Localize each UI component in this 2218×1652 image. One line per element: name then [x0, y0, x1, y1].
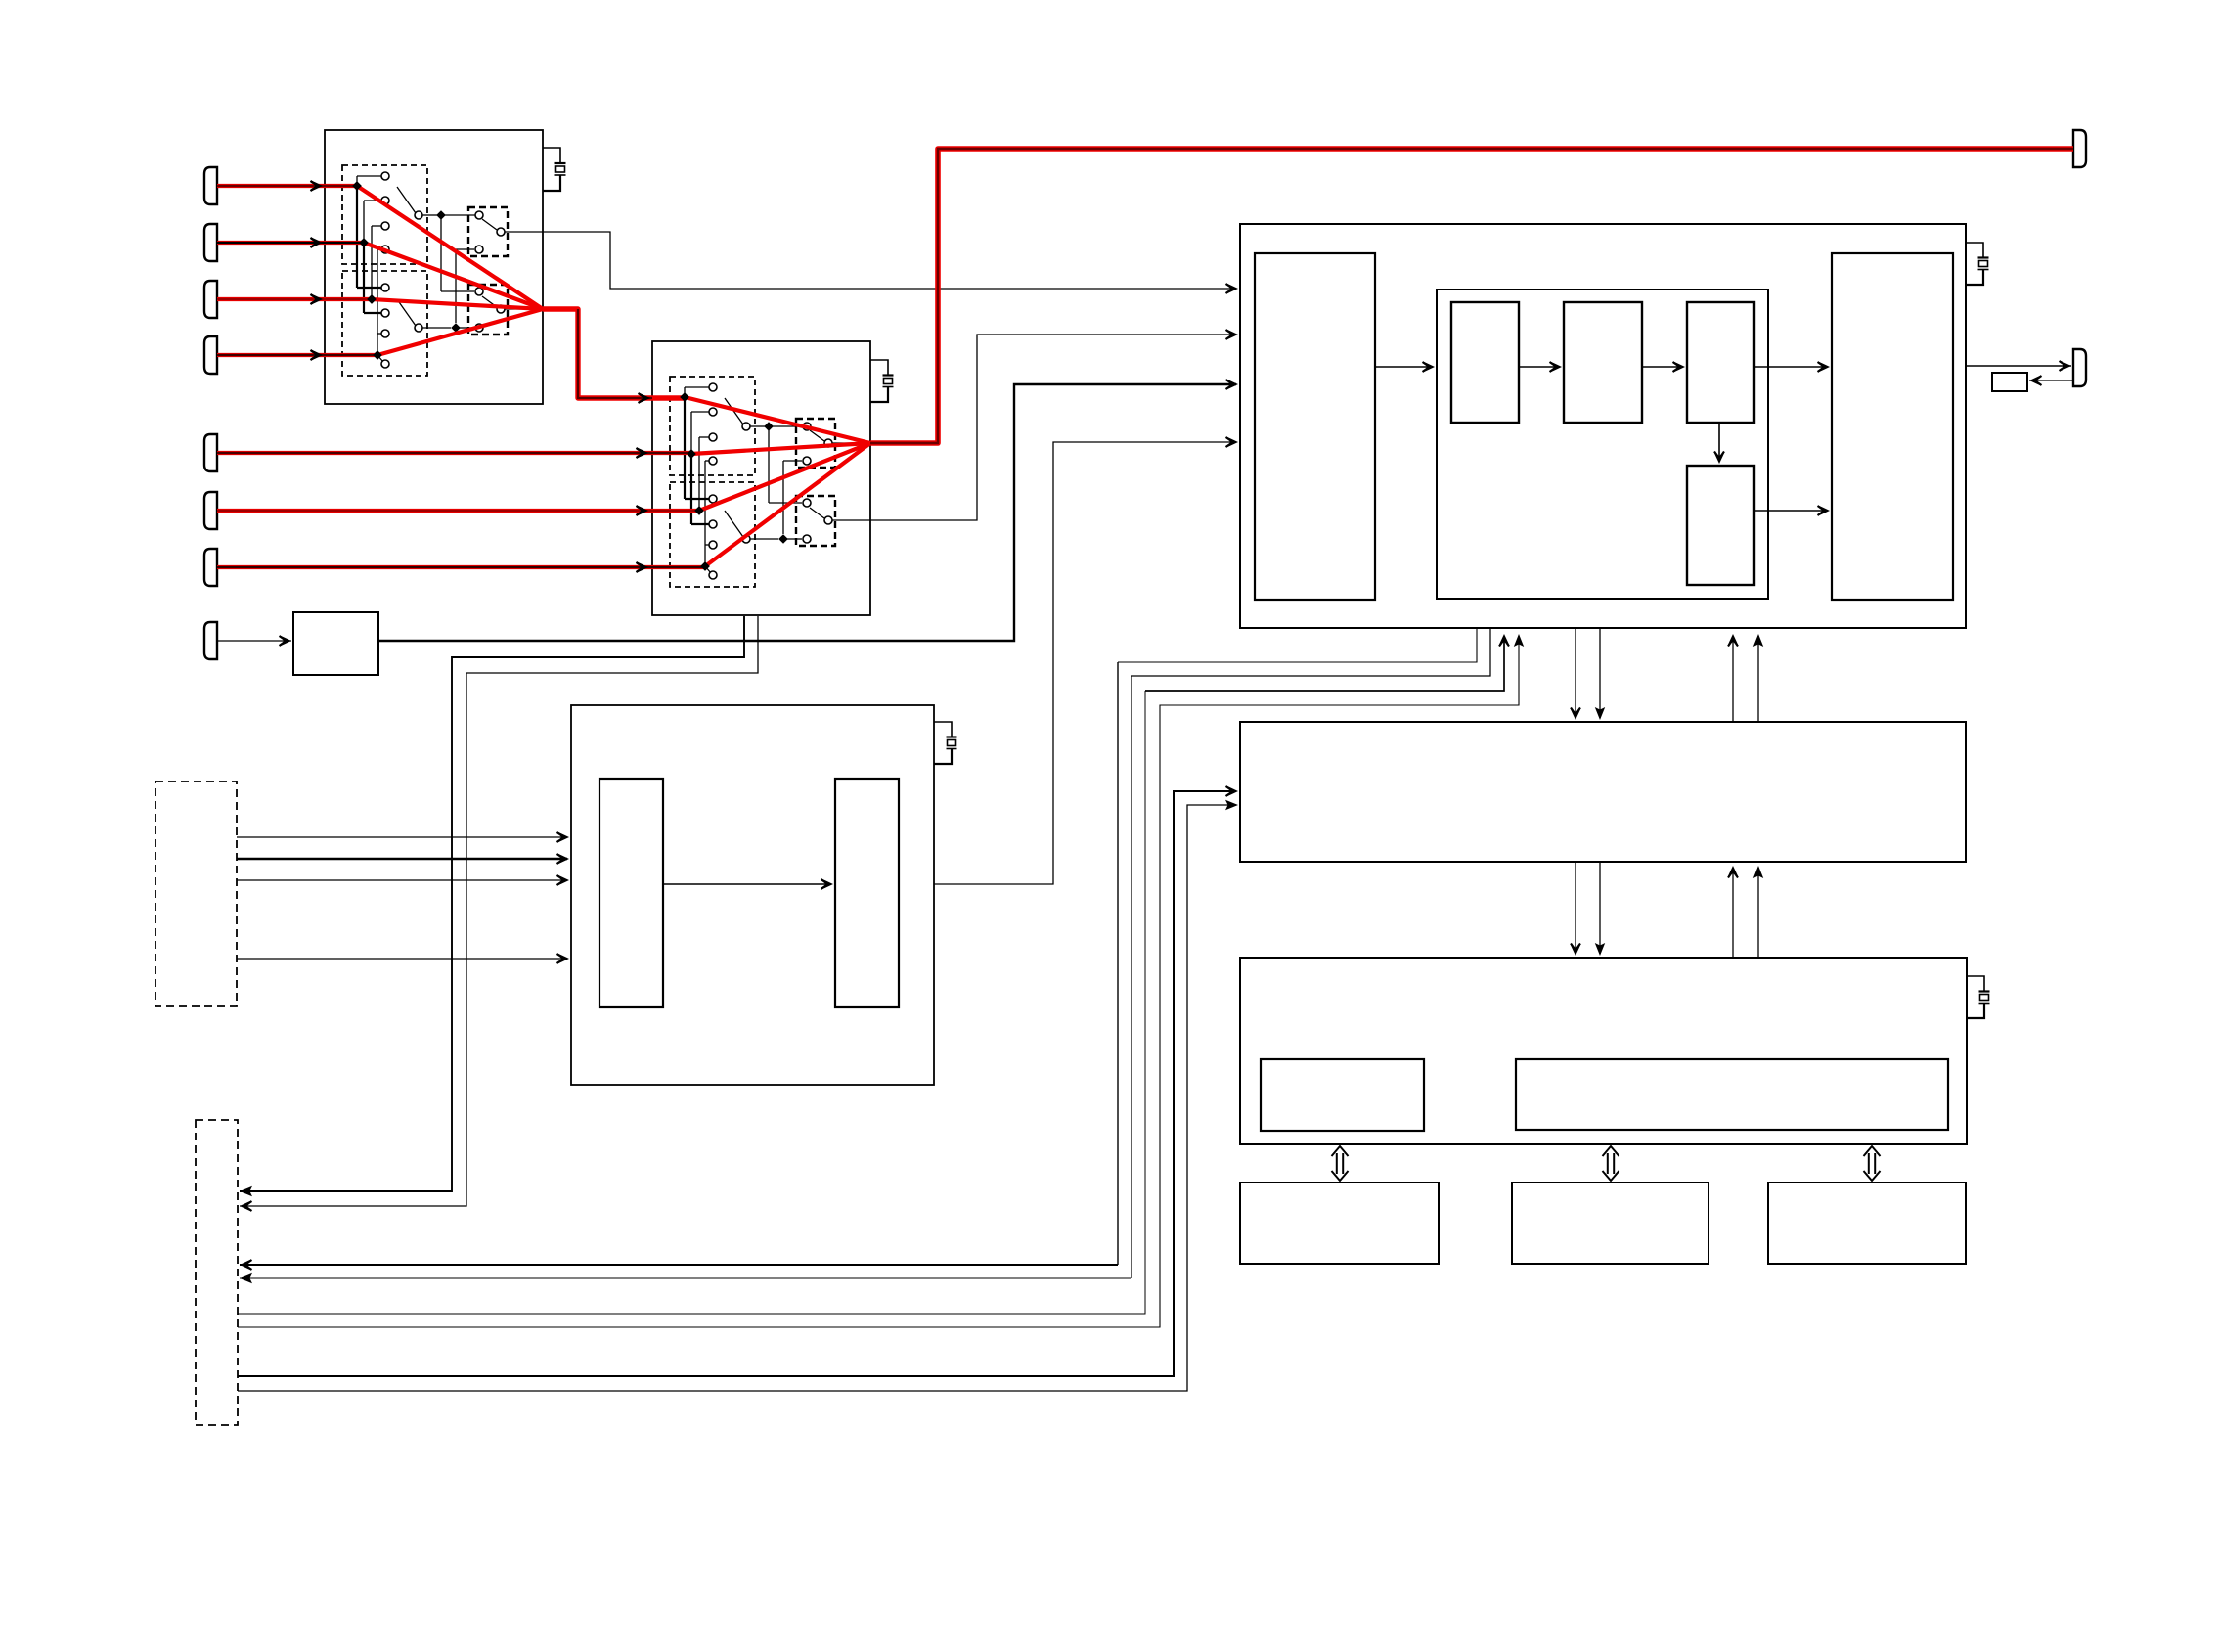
- core wire B6: [217, 510, 697, 512]
- arrowhead into SW2 in4: [637, 562, 649, 573]
- bus line gateway to ECU up 2: [1757, 636, 1759, 722]
- arrowhead into stage C: [1673, 362, 1686, 373]
- wire SW1 switch output to ECU input 1: [543, 232, 1236, 289]
- red wire B7 feed: [217, 565, 703, 569]
- red diagonal SW1 pole3: [372, 299, 543, 309]
- wire B7 to SW2 input 4: [217, 566, 705, 568]
- connector B1: [204, 167, 217, 204]
- connector C2 top right: [2073, 130, 2086, 167]
- arrowhead P5 into gateway: [1226, 786, 1239, 797]
- junction diamond over red: [352, 181, 362, 191]
- arrowhead P3 into ECU: [1499, 634, 1510, 647]
- junction diamond over red: [694, 506, 704, 515]
- junction diamond over red: [680, 392, 689, 402]
- wire SW2 output A to connector: [240, 616, 744, 1191]
- wire connector C1 return to terminator: [2029, 380, 2073, 381]
- wire B4 to SW1 input 4: [217, 354, 377, 356]
- connector B3: [204, 281, 217, 318]
- resonator X3 on amplifier: [934, 722, 957, 764]
- arrowhead into SW1 in4: [311, 350, 324, 361]
- core wire B2: [217, 242, 362, 244]
- red wire SW1 output to SW2: [543, 309, 686, 398]
- connector C1 right: [2073, 349, 2086, 386]
- arrowhead amp in4: [557, 954, 570, 964]
- red wire B1 feed: [217, 184, 355, 188]
- wire SW2 output B to connector: [240, 616, 758, 1206]
- bus line body ECU to gateway up 2: [1757, 868, 1759, 958]
- harness wire P1 upper ECU segment: [1118, 628, 1477, 662]
- junction diamond over red: [700, 561, 710, 571]
- wire noise filter to ECU input 3: [378, 384, 1236, 641]
- arrowhead into stage D: [1714, 452, 1725, 465]
- wire B1 to SW1 input 1: [217, 185, 357, 187]
- red diagonal SW2 pole1: [685, 397, 870, 443]
- amp output stage box: [835, 779, 899, 1007]
- core wire B3: [217, 298, 370, 300]
- CPU stage box B: [1564, 302, 1642, 423]
- red diagonal SW1 pole2: [364, 243, 543, 309]
- arrowhead into body ECU 1: [1571, 944, 1581, 957]
- bus line ECU to gateway down 2: [1599, 628, 1601, 718]
- wire sensor to amp input 4: [237, 958, 567, 960]
- amp input stage box: [599, 779, 663, 1007]
- load box 2: [1512, 1183, 1708, 1264]
- wire sensor to amp input 1: [237, 836, 567, 838]
- core wire SW2 to C2: [870, 149, 2073, 443]
- bus line gateway to ECU up 1: [1732, 636, 1734, 722]
- junction diamond over red: [359, 238, 369, 247]
- arrowhead SW2-A into connector: [240, 1186, 252, 1196]
- resonator X5 on body ECU: [1967, 976, 1990, 1018]
- switch box SW2 internal contacts: [670, 377, 870, 587]
- core wire B1: [217, 185, 355, 187]
- bus line body ECU to gateway up 1: [1732, 868, 1734, 958]
- arrowhead P4 into ECU: [1514, 634, 1524, 647]
- arrowhead into amp output stage: [821, 879, 834, 890]
- connector B7: [204, 549, 217, 586]
- core wire SW1 to SW2: [578, 309, 652, 398]
- arrowhead over red wire: [311, 350, 324, 361]
- red diagonal SW2 pole4: [705, 443, 870, 566]
- arrowhead into SW2 in2: [637, 448, 649, 459]
- wire B5 to SW2 input 2: [217, 452, 691, 454]
- arrowhead into body ECU 2: [1595, 943, 1605, 956]
- wire B2 to SW1 input 2: [217, 242, 364, 244]
- wire sensor to amp input 2: [237, 858, 567, 860]
- main ECU block outline: [1240, 224, 1966, 628]
- arrowhead into ECU in4: [1226, 437, 1239, 448]
- wire stage B to C: [1642, 366, 1683, 368]
- core wire B7: [217, 566, 703, 568]
- CPU stage box C: [1687, 302, 1754, 423]
- bus line gateway to body ECU down 1: [1575, 862, 1576, 954]
- arrowhead SW2-B into connector: [240, 1201, 252, 1212]
- CPU stage box A: [1451, 302, 1519, 423]
- red diagonal SW1 pole4: [377, 309, 543, 355]
- core wire B4: [217, 354, 376, 356]
- wire input interface to CPU: [1375, 366, 1433, 368]
- connector B2: [204, 224, 217, 261]
- arrowhead P1 into connector: [240, 1260, 252, 1271]
- red wire B6 feed: [217, 509, 697, 513]
- arrowhead into CPU container: [1423, 362, 1436, 373]
- arrowhead into ECU in2: [1226, 330, 1239, 340]
- wire amp output to ECU input 4: [934, 442, 1236, 884]
- arrowhead into gateway up 1: [1728, 866, 1739, 878]
- arrowhead into SW1 in1: [311, 181, 324, 192]
- arrowhead amp in2: [557, 854, 570, 865]
- wire ECU output to connector C1: [1966, 365, 2071, 367]
- wire stage D to output interface: [1754, 510, 1828, 512]
- switch box SW2 outline: [652, 341, 870, 615]
- red wire SW2 output to connector C2: [870, 149, 2073, 443]
- red wire B2 feed: [217, 241, 362, 245]
- arrowhead into gateway up 2: [1753, 866, 1763, 878]
- wire sensor to amp input 3: [237, 879, 567, 881]
- amplifier block outline: [571, 705, 934, 1085]
- junction diamond over red: [373, 350, 382, 360]
- bus line gateway to body ECU down 2: [1599, 862, 1601, 954]
- core wire B5: [217, 452, 689, 454]
- CPU stage box D: [1687, 466, 1754, 585]
- arrowhead over red wire: [639, 393, 651, 404]
- noise filter box: [293, 612, 378, 675]
- arrowhead over red wire: [637, 448, 649, 459]
- red wire B4 feed: [217, 353, 376, 357]
- arrowhead over red wire: [311, 294, 324, 305]
- arrowhead into SW2 in3: [637, 506, 649, 516]
- arrowhead over red wire: [637, 562, 649, 573]
- arrowhead P6 into gateway: [1225, 800, 1238, 810]
- wire stage C to output interface: [1754, 366, 1828, 368]
- load box 3: [1768, 1183, 1966, 1264]
- switch box SW1 internal contacts: [342, 165, 543, 376]
- red highlight group: [217, 149, 2073, 567]
- harness wire P1 vertical: [1117, 662, 1119, 1265]
- red diagonal SW2 pole2: [691, 443, 870, 454]
- harness wire P2 ECU segment: [1131, 628, 1490, 1278]
- body ECU block outline: [1240, 958, 1967, 1144]
- red wire B5 feed: [217, 451, 689, 455]
- arrowhead into output interface: [1818, 362, 1831, 373]
- wire amp internal stage link: [663, 883, 831, 885]
- arrowhead into ECU up 2: [1753, 634, 1763, 647]
- terminator resistor box: [1992, 373, 2027, 391]
- harness wire P3 upper segment to ECU: [1145, 636, 1504, 691]
- arrowhead amp in3: [557, 875, 570, 886]
- bidirectional link to load 2: [1603, 1146, 1619, 1181]
- wire stage A to B: [1519, 366, 1560, 368]
- ECU CPU container box: [1437, 290, 1768, 599]
- connector B4: [204, 336, 217, 374]
- wire SW2 switch output to ECU input 2: [870, 335, 1236, 520]
- arrowhead into stage B: [1550, 362, 1563, 373]
- dashed harness connector box: [196, 1120, 238, 1425]
- resonator X4 on ECU: [1966, 243, 1989, 285]
- harness wire P4 connector to ECU: [238, 636, 1519, 1327]
- arrowhead amp in1: [557, 832, 570, 843]
- harness wire P3 lower segment: [238, 691, 1145, 1314]
- wire stage C down to stage D: [1718, 423, 1720, 462]
- harness wire P6 connector to gateway: [238, 805, 1236, 1391]
- connector B5: [204, 434, 217, 471]
- junction diamond over red: [687, 449, 696, 459]
- arrowhead into terminator: [2029, 376, 2042, 386]
- connector B8: [204, 622, 217, 659]
- wire B6 to SW2 input 3: [217, 510, 699, 512]
- harness wire P2 into connector: [240, 1277, 1131, 1279]
- switch box SW1 outline: [325, 130, 543, 404]
- harness wire P5 connector to gateway: [238, 791, 1236, 1376]
- arrowhead into ECU in1: [1226, 284, 1239, 294]
- arrowhead over red wire: [311, 181, 324, 192]
- arrowhead into output interface 2: [1818, 506, 1831, 516]
- arrowhead into noise filter: [280, 636, 292, 647]
- red wire B3 feed: [217, 297, 370, 301]
- body ECU driver box: [1261, 1059, 1424, 1131]
- red diagonal SW1 pole1: [357, 186, 543, 309]
- resonator X1 on SW1: [543, 148, 566, 191]
- wire B3 to SW1 input 3: [217, 298, 372, 300]
- arrowhead into ECU in3: [1226, 380, 1239, 390]
- body ECU logic box: [1516, 1059, 1948, 1130]
- arrowhead into gateway 2: [1595, 707, 1605, 720]
- dashed sensor unit box: [155, 781, 237, 1006]
- wire B8 to noise filter: [217, 640, 291, 642]
- junction diamond over red: [367, 294, 377, 304]
- ECU output interface box: [1832, 253, 1953, 600]
- harness wire P1 into connector: [240, 1264, 1118, 1266]
- arrowhead into connector C1: [2060, 361, 2072, 372]
- arrowhead into ECU up 1: [1728, 634, 1739, 647]
- resonator X2 on SW2: [870, 360, 894, 402]
- connector B6: [204, 492, 217, 529]
- arrowhead over red wire: [311, 238, 324, 248]
- bus line ECU to gateway down 1: [1575, 628, 1576, 718]
- arrowhead into gateway 1: [1571, 708, 1581, 721]
- red diagonal SW2 pole3: [699, 443, 870, 511]
- gateway block outline: [1240, 722, 1966, 862]
- load box 1: [1240, 1183, 1439, 1264]
- arrowhead into SW1 in2: [311, 238, 324, 248]
- bidirectional link to load 3: [1864, 1146, 1881, 1181]
- arrowhead into SW1 in3: [311, 294, 324, 305]
- ECU input interface box: [1255, 253, 1375, 600]
- arrowhead P2 into connector: [240, 1273, 252, 1283]
- bidirectional link to load 1: [1332, 1146, 1349, 1181]
- arrowhead over red wire: [637, 506, 649, 516]
